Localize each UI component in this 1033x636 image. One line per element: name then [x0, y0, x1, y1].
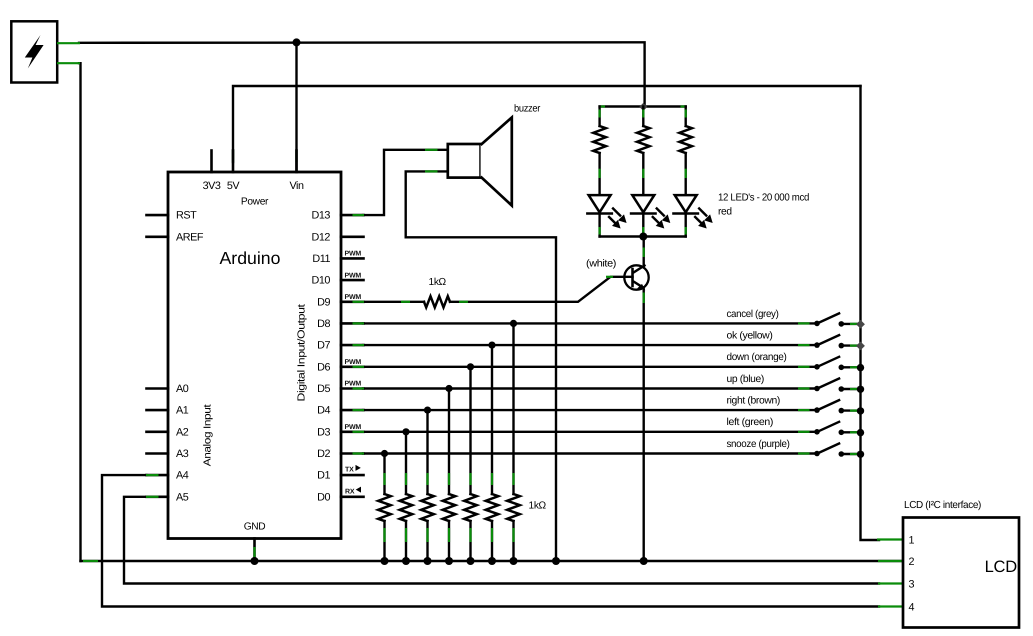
LED 2	[631, 195, 670, 236]
pin 2 LCD	[909, 556, 915, 568]
svg-text:Arduino: Arduino	[220, 248, 281, 268]
svg-text:GND: GND	[244, 522, 266, 533]
wire V- from power supply to ground bus	[57, 63, 81, 561]
label 1k pulldowns	[529, 501, 547, 512]
svg-text:ok (yellow): ok (yellow)	[727, 331, 773, 342]
switch S4 up (blue)	[814, 378, 860, 392]
svg-text:PWM: PWM	[345, 359, 362, 366]
resistor 1k pulldown D8	[507, 323, 520, 561]
resistor R1 1k base	[353, 277, 633, 308]
svg-text:2: 2	[909, 556, 915, 568]
switch S2 ok (yellow)	[814, 335, 860, 349]
wire 5V rail to switch bus and LCD pin1	[233, 86, 861, 162]
wire A5 to LCD pin3	[124, 497, 903, 584]
pin GND	[253, 539, 256, 562]
svg-text:Vin: Vin	[289, 180, 304, 192]
label PWM on D6	[345, 359, 362, 366]
svg-text:RST: RST	[176, 210, 197, 222]
svg-text:PWM: PWM	[345, 251, 362, 258]
resistor LED branch 3	[679, 107, 692, 196]
pin D12	[312, 231, 364, 243]
junction emitter at bus	[640, 557, 648, 565]
label Analog Input	[203, 404, 214, 466]
svg-text:1: 1	[909, 534, 915, 546]
pin D8	[317, 318, 363, 330]
resistor 1k pulldown D3	[400, 432, 413, 561]
junction D6 at 5V bus	[857, 364, 864, 371]
label left (green)	[727, 417, 774, 428]
wire switch bus vertical	[861, 86, 903, 540]
pin D4	[317, 405, 363, 417]
svg-text:(white): (white)	[586, 259, 616, 270]
pin 1 LCD	[909, 534, 915, 546]
svg-text:D8: D8	[317, 318, 330, 330]
svg-text:PWM: PWM	[345, 272, 362, 279]
label down (orange)	[727, 352, 787, 363]
svg-text:up (blue): up (blue)	[727, 374, 765, 385]
label snooze (purple)	[727, 439, 790, 450]
svg-text:LCD (I²C interface): LCD (I²C interface)	[904, 500, 981, 511]
junction D4 at 5V bus	[857, 407, 864, 414]
label 1k base resistor	[429, 277, 447, 288]
resistor 1k pulldown D7	[486, 345, 499, 561]
junction D8 pulldown tap	[510, 320, 517, 327]
svg-text:D3: D3	[317, 426, 330, 438]
svg-text:D7: D7	[317, 340, 330, 352]
wire D8 row	[353, 322, 817, 324]
pin D2	[317, 448, 363, 460]
pin A5	[147, 491, 189, 503]
junction LED bottom rail	[639, 233, 647, 241]
svg-text:LCD: LCD	[985, 558, 1018, 576]
switch S6 left (green)	[814, 421, 860, 435]
switch S5 right (brown)	[814, 400, 860, 414]
switch S1 cancel (grey)	[814, 313, 860, 327]
wire D13 to buzzer +	[353, 150, 448, 215]
junction pulldown D3 at bus	[402, 557, 410, 565]
svg-text:4: 4	[909, 601, 915, 613]
LED 3	[674, 195, 713, 236]
junction pulldown D2 at bus	[381, 557, 389, 565]
pin D11	[312, 253, 363, 265]
junction D2 at 5V bus	[857, 451, 864, 458]
pin D5	[317, 383, 363, 395]
pin A0	[147, 383, 189, 395]
label PWM on D11	[345, 251, 362, 258]
resistor 1k pulldown D5	[443, 389, 456, 562]
pin A2	[147, 426, 189, 438]
wire D5 row	[353, 387, 817, 389]
svg-text:PWM: PWM	[345, 381, 362, 388]
junction D4 pulldown tap	[424, 407, 431, 414]
svg-text:D13: D13	[312, 210, 331, 222]
label PWM on D9	[345, 294, 362, 301]
wire Vin drop	[295, 42, 297, 170]
pin A4	[147, 470, 189, 482]
junction D3 pulldown tap	[402, 428, 409, 435]
wire D2 row	[353, 452, 817, 454]
wire LED top rail	[600, 105, 686, 107]
power supply PS1	[11, 21, 57, 82]
wire LED bottom rail	[600, 235, 686, 237]
svg-text:Digital Input/Output: Digital Input/Output	[297, 304, 308, 402]
pin RST	[147, 210, 198, 222]
junction D7 at 5V bus	[856, 342, 865, 351]
svg-text:A0: A0	[176, 383, 189, 395]
svg-text:D0: D0	[317, 491, 330, 503]
pin D9	[317, 296, 363, 308]
junction pulldown D6 at bus	[467, 557, 475, 565]
svg-text:A4: A4	[176, 470, 189, 482]
resistor 1k pulldown D4	[421, 410, 434, 561]
junction LED rail	[639, 103, 647, 111]
svg-text:left (green): left (green)	[727, 417, 774, 428]
svg-text:A5: A5	[176, 491, 189, 503]
Arduino label	[220, 248, 281, 268]
pin D0	[317, 491, 363, 503]
pin D6	[317, 361, 363, 373]
svg-text:1kΩ: 1kΩ	[429, 277, 447, 288]
junction D6 pulldown tap	[467, 363, 474, 370]
label 12 LEDs value	[718, 193, 810, 218]
junction pulldown D4 at bus	[424, 557, 432, 565]
svg-text:3: 3	[909, 578, 915, 590]
pin A1	[147, 405, 189, 417]
svg-text:A1: A1	[176, 405, 189, 417]
pin D1	[317, 470, 363, 482]
svg-text:D1: D1	[317, 470, 330, 482]
svg-text:3V3: 3V3	[203, 180, 221, 192]
pin D10	[312, 275, 364, 287]
svg-text:5V: 5V	[227, 180, 241, 192]
svg-text:PWM: PWM	[345, 424, 362, 431]
buzzer BZ1	[448, 118, 512, 206]
pin 4 LCD	[909, 601, 915, 613]
pin 3 LCD	[909, 578, 915, 590]
label up (blue)	[727, 374, 765, 385]
switch S3 down (orange)	[814, 356, 860, 370]
resistor LED branch 2	[637, 107, 650, 196]
svg-text:D12: D12	[312, 231, 331, 243]
label PWM on D5	[345, 381, 362, 388]
wire A4 to LCD pin4	[102, 475, 903, 606]
svg-text:D2: D2	[317, 448, 330, 460]
junction Vin tap	[293, 38, 301, 46]
label right (brown)	[727, 396, 781, 407]
pin D13	[312, 210, 364, 222]
label PWM on D3	[345, 424, 362, 431]
svg-text:D5: D5	[317, 383, 330, 395]
label LCD (I2C interface)	[904, 500, 981, 511]
pin Vin	[289, 151, 304, 193]
junction D8 at 5V bus	[856, 320, 865, 329]
svg-text:D11: D11	[312, 253, 330, 265]
svg-text:D4: D4	[317, 405, 330, 417]
junction pulldown D8 at bus	[510, 557, 518, 565]
junction buzzer return at bus	[552, 557, 560, 565]
wire emitter to ground bus	[643, 289, 645, 562]
label GND	[244, 522, 266, 533]
junction D2 pulldown tap	[381, 450, 388, 457]
label ok (yellow)	[727, 331, 773, 342]
svg-text:PWM: PWM	[345, 294, 362, 301]
svg-text:Power: Power	[241, 197, 269, 208]
svg-text:12 LED's - 20 000 mcd: 12 LED's - 20 000 mcd	[718, 193, 810, 204]
pin AREF	[147, 231, 204, 243]
junction D7 pulldown tap	[488, 342, 495, 349]
resistor 1k pulldown D6	[464, 367, 477, 561]
svg-text:D6: D6	[317, 361, 330, 373]
pin 3V3	[203, 151, 221, 193]
junction GND at bus	[251, 557, 259, 565]
svg-text:Analog Input: Analog Input	[203, 404, 214, 466]
LCD module	[903, 518, 1019, 628]
svg-text:AREF: AREF	[176, 231, 204, 243]
wire ground bus	[81, 560, 903, 562]
svg-text:right (brown): right (brown)	[727, 396, 781, 407]
junction D3 at 5V bus	[857, 429, 864, 436]
junction pulldown D5 at bus	[445, 557, 453, 565]
label Power	[241, 197, 269, 208]
transistor Q1 (white)	[624, 265, 648, 290]
svg-text:TX: TX	[345, 467, 354, 474]
label PWM on D10	[345, 272, 362, 279]
LED 1	[587, 195, 626, 236]
svg-text:1kΩ: 1kΩ	[529, 501, 547, 512]
wire D6 row	[353, 366, 817, 368]
svg-text:cancel (grey): cancel (grey)	[727, 309, 779, 320]
junction pulldown D7 at bus	[488, 557, 496, 565]
wire buzzer - to ground bus	[406, 171, 556, 561]
wire D3 row	[353, 431, 817, 433]
svg-text:D9: D9	[317, 296, 330, 308]
svg-text:red: red	[718, 207, 732, 218]
wire D4 row	[353, 409, 817, 411]
svg-text:down (orange): down (orange)	[727, 352, 787, 363]
svg-text:snooze (purple): snooze (purple)	[727, 439, 790, 450]
wire V+ from power supply to Vin and LED rail	[57, 42, 645, 105]
label cancel (grey)	[727, 309, 779, 320]
switch S7 snooze (purple)	[814, 443, 860, 457]
label RX on D0	[345, 487, 361, 496]
label TX on D1	[345, 465, 361, 474]
resistor 1k pulldown D2	[378, 454, 391, 562]
label (white)	[586, 259, 616, 270]
Arduino U1 body	[168, 172, 341, 539]
svg-text:A2: A2	[176, 426, 189, 438]
buzzer label	[514, 104, 541, 115]
pin D3	[317, 426, 363, 438]
pin A3	[147, 448, 189, 460]
svg-text:A3: A3	[176, 448, 189, 460]
svg-text:RX: RX	[345, 488, 355, 495]
label Digital Input/Output	[297, 304, 308, 402]
pin D7	[317, 340, 363, 352]
svg-text:D10: D10	[312, 275, 331, 287]
svg-text:buzzer: buzzer	[514, 104, 541, 115]
resistor LED branch 1	[593, 107, 606, 196]
wire D7 row	[353, 344, 817, 346]
junction D5 at 5V bus	[857, 386, 864, 393]
wire LED rail to collector	[643, 237, 645, 267]
pin 5V	[227, 151, 241, 193]
junction D5 pulldown tap	[445, 385, 452, 392]
